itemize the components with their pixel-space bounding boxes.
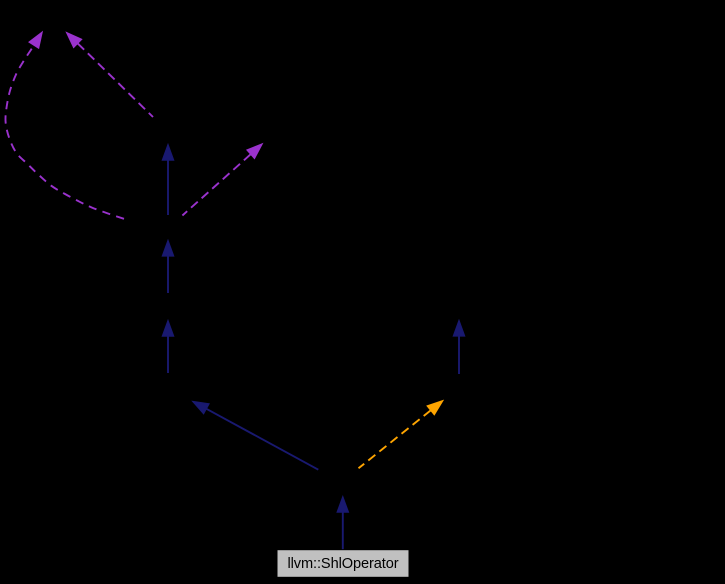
- edge: template relation dashed orange arrow from row-F up-right: [359, 401, 444, 469]
- edge: Use self-loop dashed arc (darkorchid) to node Value: [5, 32, 124, 219]
- edge: inheritance arrow V3 row-E to row-D: [162, 320, 174, 373]
- edge: inheritance arrow V2 row-D to row-C: [162, 240, 174, 293]
- node llvm::ShlOperator (current node, grey fill): [277, 550, 409, 578]
- svg-text:llvm::ShlOperator: llvm::ShlOperator: [287, 556, 398, 572]
- edge: dashed darkorchid arrow from node row-C up-right to node Use: [182, 144, 262, 216]
- edge: inheritance arrow V5 from ShlOperator to row-F: [337, 496, 349, 550]
- edge: inheritance arrow V1 (midnightblue) row-C to row-B: [162, 144, 174, 215]
- edge: dashed darkorchid arrow from node row-B up-left to node Value: [66, 32, 153, 117]
- edge: inheritance arrow V4 right column: [453, 320, 465, 374]
- edge: inheritance diagonal D1 from row-F up-left to row-E: [193, 401, 319, 469]
